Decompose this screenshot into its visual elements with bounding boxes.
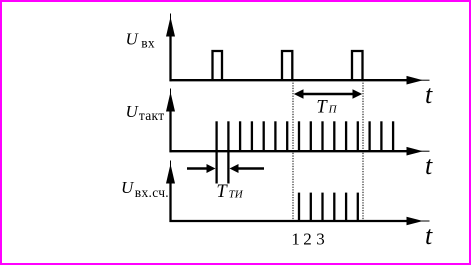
svg-text:t: t bbox=[425, 151, 433, 180]
svg-text:3: 3 bbox=[316, 230, 325, 249]
svg-text:1: 1 bbox=[291, 230, 300, 249]
svg-text:вх.сч.: вх.сч. bbox=[135, 185, 169, 200]
time axis U_vx.sch with arrow bbox=[170, 217, 430, 226]
svg-text:П: П bbox=[328, 104, 338, 116]
pulse 1 of U_vx bbox=[213, 51, 223, 81]
svg-text:T: T bbox=[216, 182, 228, 202]
T_TI right arrow bbox=[230, 164, 265, 173]
dotted marker line left bbox=[292, 80, 294, 222]
time axis U_takt with arrow bbox=[170, 147, 430, 156]
svg-text:вх: вх bbox=[141, 35, 155, 50]
T_P label bbox=[316, 98, 337, 118]
T_TI label bbox=[216, 182, 243, 202]
T_TI left arrow bbox=[187, 164, 216, 173]
label U_vx bbox=[126, 30, 155, 51]
svg-text:такт: такт bbox=[139, 108, 165, 123]
svg-text:t: t bbox=[425, 80, 433, 109]
svg-text:ТИ: ТИ bbox=[229, 189, 244, 201]
label U_vx.sch bbox=[121, 178, 169, 200]
dotted marker line right bbox=[362, 80, 364, 222]
svg-text:T: T bbox=[316, 98, 328, 118]
svg-text:t: t bbox=[425, 221, 433, 250]
pulse 3 of U_vx bbox=[352, 51, 363, 81]
svg-text:U: U bbox=[126, 102, 140, 121]
svg-text:2: 2 bbox=[303, 230, 312, 249]
T_P measurement arrow bbox=[294, 89, 362, 99]
svg-text:U: U bbox=[126, 30, 140, 49]
vertical axis U_takt with arrow bbox=[166, 89, 175, 153]
vertical axis U_vx with arrow bbox=[166, 14, 175, 82]
vertical axis U_vx.sch with arrow bbox=[166, 161, 175, 223]
counter pulse train U_vx.sch bbox=[299, 193, 358, 222]
time axis U_vx with arrow bbox=[170, 76, 430, 85]
pulse 2 of U_vx bbox=[282, 51, 292, 81]
svg-text:U: U bbox=[121, 178, 135, 197]
label U_takt bbox=[126, 102, 165, 123]
clock pulse train U_takt bbox=[217, 121, 394, 183]
